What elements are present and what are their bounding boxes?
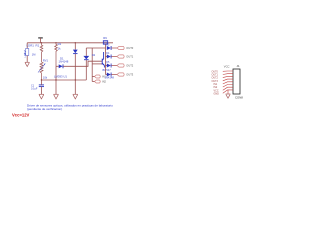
diode D4 branch 2 <box>106 52 118 58</box>
diode D7 branch 4 <box>105 73 118 80</box>
pin 3 <box>212 76 234 79</box>
LDR sensor <box>24 49 29 56</box>
wire connector ground drop <box>227 90 229 94</box>
wire LDR down <box>26 56 28 63</box>
node pot-bus <box>41 79 42 80</box>
transistor Q1 <box>102 52 104 68</box>
svg-text:BC547: BC547 <box>103 68 112 72</box>
svg-text:LDR: LDR <box>24 52 27 57</box>
svg-text:R9: R9 <box>103 36 107 40</box>
wire bottom bus <box>41 79 86 81</box>
diode D6 branch 3 <box>106 61 118 67</box>
svg-text:LM393 U1: LM393 U1 <box>54 75 67 79</box>
node junction rail-D1 <box>75 42 76 43</box>
port OUT0 <box>117 46 134 50</box>
diode D1 vertical <box>73 43 78 54</box>
resistor R9 top right <box>103 41 107 45</box>
node junction rail-R2 <box>55 42 56 43</box>
svg-text:1N4148: 1N4148 <box>59 60 69 64</box>
diode D3 branch 1 <box>106 44 117 50</box>
svg-text:0.1uF: 0.1uF <box>31 87 38 90</box>
pin 4 <box>212 79 234 83</box>
svg-text:CON8: CON8 <box>235 95 243 99</box>
svg-text:R2: R2 <box>58 42 62 46</box>
pin 1 <box>212 70 234 73</box>
wire R2 column to ground <box>55 66 57 94</box>
wire D1 down to ground <box>74 54 76 94</box>
pin 7 <box>214 87 234 92</box>
ground connector <box>226 94 231 98</box>
ground G3 <box>73 94 78 99</box>
node junction rail-R1 <box>41 42 42 43</box>
svg-text:IN2: IN2 <box>102 81 107 84</box>
wire branch1 feed <box>86 47 105 49</box>
pin 2 <box>212 74 234 77</box>
svg-text:RV1: RV1 <box>43 58 49 62</box>
svg-text:OUT0: OUT0 <box>126 46 133 50</box>
svg-text:OUT3: OUT3 <box>126 73 133 77</box>
wire left branch down <box>26 43 28 49</box>
power VCC symbol <box>38 38 43 43</box>
svg-text:OUT1: OUT1 <box>126 55 133 59</box>
svg-text:(pendiente de verificacion): (pendiente de verificacion) <box>27 107 62 111</box>
svg-text:VCC: VCC <box>224 64 230 68</box>
ground G2 <box>53 94 58 99</box>
pin 8 <box>214 90 234 96</box>
wire D2 vertical down <box>85 60 87 80</box>
ground G0 <box>25 62 30 66</box>
svg-text:R1: R1 <box>36 44 40 48</box>
wire Q1 feed drop <box>91 48 93 82</box>
ground G1 <box>39 94 44 99</box>
resistor R2 <box>55 43 58 67</box>
port OUT3 <box>117 73 134 77</box>
node D1-bus <box>75 79 76 80</box>
port IN1 <box>92 75 106 79</box>
svg-text:Vcc=12V: Vcc=12V <box>12 112 30 117</box>
wire output bus vertical <box>105 44 107 74</box>
node R2col-bus <box>55 79 56 80</box>
capacitor C1 <box>39 85 44 87</box>
svg-text:10k: 10k <box>43 76 48 80</box>
svg-text:J1: J1 <box>237 64 240 68</box>
svg-text:OUT2: OUT2 <box>126 64 133 68</box>
pin 5 <box>214 82 234 86</box>
wire D5 output <box>63 61 102 66</box>
svg-text:D2: D2 <box>92 53 96 57</box>
port IN2 <box>92 80 106 84</box>
pin 6 <box>214 85 234 90</box>
connector J1 <box>233 69 240 94</box>
resistor R1 <box>40 43 43 62</box>
port OUT2 <box>117 64 134 68</box>
wire cap top <box>40 80 42 85</box>
port OUT1 <box>117 55 134 59</box>
potentiometer RV1 <box>40 62 43 80</box>
svg-text:LDR1: LDR1 <box>27 44 35 48</box>
svg-text:1M: 1M <box>32 53 36 57</box>
svg-text:1N4148: 1N4148 <box>105 75 115 79</box>
wire top power rail <box>27 42 113 44</box>
wire cap bottom <box>40 87 42 95</box>
diode D5 horizontal <box>56 64 63 68</box>
diode D2 vertical <box>83 48 89 60</box>
svg-text:GND: GND <box>214 92 220 95</box>
